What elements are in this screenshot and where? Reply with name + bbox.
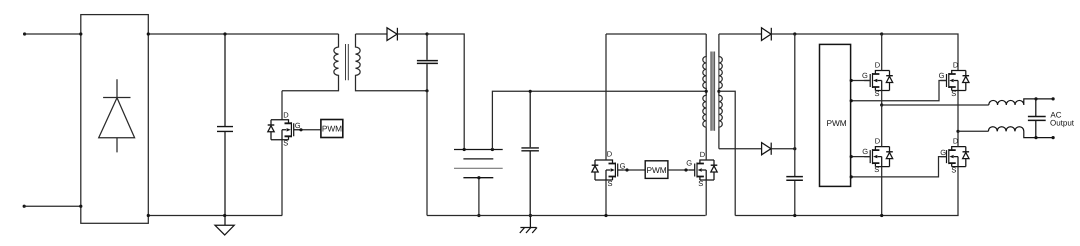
- node: Q6 source on ground rail: [880, 214, 883, 217]
- diode D1 (flyback output rectifier): [387, 28, 427, 41]
- wire: battery + rail to transformer T2 center tap: [492, 91, 706, 149]
- node: T2 primary center tap: [705, 90, 708, 93]
- inductor L2 (output filter bottom): [988, 127, 1053, 138]
- svg-text:Output: Output: [1050, 119, 1075, 128]
- diode D2 (secondary rectifier top): [762, 28, 772, 41]
- svg-text:D: D: [875, 137, 881, 146]
- MOSFET Q1 (flyback switch): [268, 91, 321, 216]
- wire: DC + to battery: [427, 34, 464, 150]
- node: Q2 source on ground rail: [604, 214, 607, 217]
- node: D3 cathode junction: [793, 147, 796, 150]
- wire: T2 winding spines: [706, 57, 719, 128]
- svg-text:S: S: [875, 89, 880, 98]
- svg-text:PWM: PWM: [647, 165, 667, 175]
- ground (chassis) secondary side: [520, 216, 537, 234]
- node: output top cap junction: [1034, 97, 1037, 100]
- svg-text:S: S: [951, 89, 956, 98]
- AC input terminal top-left: [23, 32, 26, 35]
- svg-text:S: S: [283, 139, 288, 148]
- svg-text:D: D: [700, 150, 706, 159]
- PWM controller 2 box: [645, 161, 668, 179]
- capacitor C1 (DC bus filter): [217, 34, 233, 216]
- node: C1 bottom: [223, 214, 226, 217]
- capacitor C5 (AC output filter): [1028, 99, 1046, 138]
- wire: HVDC bus vertical: [794, 34, 796, 216]
- bridge rectifier diode symbol: [99, 79, 135, 152]
- wire: secondary ground rail 2: [427, 215, 706, 217]
- node: C2 bottom junction: [425, 89, 428, 92]
- node: phase B junction: [956, 130, 959, 133]
- node: phase A junction: [880, 103, 883, 106]
- svg-text:G: G: [620, 161, 626, 170]
- transformer T1 secondary winding: [356, 34, 428, 91]
- svg-text:G: G: [862, 71, 868, 80]
- wire: D2 cathode to H-bridge + rail: [771, 33, 881, 35]
- MOSFET Q4 (H-bridge top-left): [850, 34, 893, 105]
- transformer T2 secondary winding (right, center-tapped): [719, 34, 722, 149]
- node: battery top right: [491, 148, 494, 151]
- wire: bridge - output rail: [148, 215, 282, 217]
- node: C1 top: [223, 32, 226, 35]
- wire: AC line input top: [25, 33, 81, 35]
- MOSFET Q3 (push-pull B): [668, 127, 717, 215]
- capacitor C4 (HVDC filter): [786, 177, 803, 181]
- node: output bottom cap junction: [1034, 136, 1037, 139]
- node: C4 bottom on ground rail: [793, 214, 796, 217]
- wire: T2 secondary top to diode D2: [719, 33, 762, 35]
- wire: ground rail 3 (output side): [735, 215, 958, 217]
- node: T2 secondary center tap: [717, 90, 720, 93]
- svg-text:S: S: [608, 179, 613, 188]
- node: bridge + output: [147, 32, 150, 35]
- svg-text:G: G: [939, 71, 945, 80]
- AC output terminal top: [1052, 97, 1055, 100]
- node: input top-left of bridge: [79, 32, 82, 35]
- ground (earth) primary side: [215, 216, 234, 236]
- PWM controller 1 box: [321, 120, 343, 138]
- svg-text:S: S: [951, 166, 956, 175]
- capacitor C2 (flyback output filter): [417, 34, 438, 91]
- MOSFET Q7 (H-bridge bottom-right): [850, 131, 969, 215]
- node: C3 bottom: [529, 214, 532, 217]
- diode D3 (secondary rectifier bottom): [719, 143, 795, 155]
- svg-text:D: D: [875, 61, 881, 70]
- node: battery bottom tap: [477, 176, 480, 179]
- node: battery bottom on ground rail: [477, 214, 480, 217]
- wire: C2 bottom to secondary ground rail: [426, 91, 428, 216]
- transformer T1 primary winding: [282, 34, 339, 91]
- MOSFET Q6 (H-bridge bottom-left): [850, 105, 893, 216]
- wire: phase B to filter inductor L2: [958, 130, 988, 132]
- transformer T1 core: [346, 44, 349, 80]
- svg-text:G: G: [940, 148, 946, 157]
- wire: T2 secondary center tap to ground rail 3: [719, 91, 735, 215]
- svg-text:S: S: [698, 179, 703, 188]
- wire: T1 secondary top lead to diode D1: [356, 33, 388, 35]
- transformer T2 primary winding (left, center-tapped): [703, 34, 706, 127]
- svg-text:G: G: [862, 147, 868, 156]
- MOSFET Q2 (push-pull A): [592, 34, 646, 216]
- transformer T2 core: [711, 52, 715, 131]
- wire: H-bridge top rail to right leg: [882, 34, 958, 71]
- svg-text:D: D: [607, 149, 613, 158]
- node: input bottom-left of bridge: [79, 205, 82, 208]
- MOSFET Q5 (H-bridge top-right): [850, 61, 969, 132]
- node: battery top left: [463, 148, 466, 151]
- wire: push-pull top link: [606, 33, 706, 35]
- bridge rectifier box: [81, 15, 149, 224]
- AC output terminal bottom: [1052, 136, 1055, 139]
- node: H-bridge + rail left leg: [880, 32, 883, 35]
- battery (energy storage): [454, 150, 503, 216]
- node: HVDC junction top: [793, 32, 796, 35]
- node: bridge - output: [147, 214, 150, 217]
- svg-text:G: G: [686, 159, 692, 168]
- PWM controller 3 box (H-bridge driver): [820, 44, 851, 186]
- capacitor C3 (battery bus filter): [521, 91, 539, 215]
- wire: phase A to filter inductor L1: [882, 104, 989, 106]
- wire: AC line input bottom: [24, 205, 81, 207]
- svg-text:D: D: [953, 137, 959, 146]
- wire: rectified + rail to transformer T1: [148, 33, 338, 35]
- svg-text:G: G: [295, 121, 301, 130]
- svg-text:PWM: PWM: [827, 118, 847, 128]
- svg-text:PWM: PWM: [322, 123, 342, 133]
- AC input terminal bottom-left: [23, 205, 26, 208]
- svg-text:D: D: [953, 61, 959, 70]
- svg-text:S: S: [874, 165, 879, 174]
- inductor L1 (output filter top): [989, 99, 1053, 105]
- node: D1 cathode junction: [425, 32, 428, 35]
- svg-text:D: D: [283, 111, 289, 120]
- node: C3 top: [529, 90, 532, 93]
